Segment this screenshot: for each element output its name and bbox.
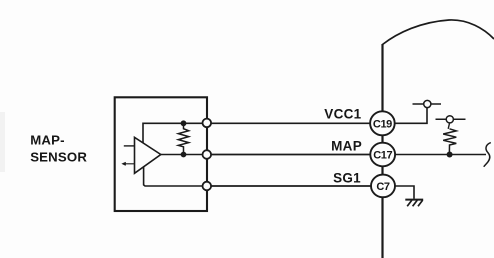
connector pin C19 <box>370 111 395 135</box>
op-amp input stub + <box>124 145 135 147</box>
ECM boundary arc <box>383 20 494 45</box>
connector pin C7 <box>371 175 395 198</box>
wire C19 to test point <box>395 107 427 123</box>
test point T2 line <box>436 118 466 120</box>
op-amp input stub - <box>123 162 135 165</box>
svg-text:C17: C17 <box>373 150 392 162</box>
connector pin C17 <box>370 143 395 167</box>
wire: op-amp output to middle terminal <box>155 154 207 156</box>
svg-text:VCC1: VCC1 <box>324 106 361 121</box>
svg-text:MAP: MAP <box>331 138 362 153</box>
resistor (ECM pull-up) <box>443 129 456 152</box>
op-amp U1 <box>135 137 161 173</box>
scan smudge left edge <box>0 112 5 172</box>
test point T2 circle <box>446 116 453 123</box>
svg-text:C7: C7 <box>376 181 390 193</box>
svg-text:SG1: SG1 <box>333 170 361 185</box>
wire MAP <box>211 154 370 156</box>
junction dot resistor top <box>181 120 187 126</box>
resistor R (sensor internal) <box>178 123 188 154</box>
wire: bottom (triangle bottom to lower terminal) <box>144 160 207 186</box>
ground G101 <box>405 200 423 207</box>
test point T1 line <box>413 103 442 105</box>
svg-text:MAP-: MAP- <box>30 133 64 148</box>
terminal circle SG1 (box edge) <box>203 182 212 191</box>
sensor box <box>115 97 207 211</box>
wire T2 to resistor <box>448 123 449 129</box>
svg-text:C19: C19 <box>373 118 392 130</box>
junction dot resistor bottom <box>181 152 187 158</box>
label MAP-SENSOR <box>30 133 87 165</box>
wire MAP inside ECM <box>395 154 486 156</box>
ECM harness vertical wire <box>381 44 383 258</box>
wire: feedback top (triangle top to resistor top to terminal) <box>143 123 207 148</box>
terminal circle MAP (box edge) <box>203 150 212 159</box>
terminal circle VCC1 (box edge) <box>203 119 212 128</box>
continuation squiggle <box>484 143 491 167</box>
test point T1 circle <box>424 100 431 107</box>
junction dot MAP/resistor <box>447 152 453 158</box>
svg-text:SENSOR: SENSOR <box>30 150 87 165</box>
wire VCC1 <box>211 122 370 124</box>
wire C7 to ground <box>394 186 414 199</box>
wire SG1 <box>211 185 371 187</box>
